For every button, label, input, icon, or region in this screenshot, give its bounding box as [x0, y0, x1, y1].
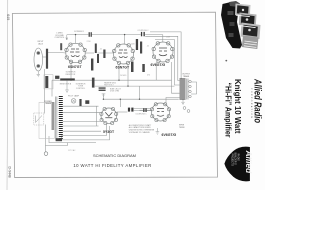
svg-text:6SN7GT: 6SN7GT	[68, 65, 82, 69]
svg-text:Knight 10 Watt: Knight 10 Watt	[233, 79, 243, 134]
wire: T1 secondary feed 2 to V4 plate	[63, 111, 100, 113]
wire: filtered B+ lead lower	[134, 110, 151, 112]
potentiometer R1 volume control (dark bar)	[46, 49, 48, 69]
power transformer T1	[44, 97, 62, 140]
svg-text:VOLTAGES TO CHASSIS: VOLTAGES TO CHASSIS	[129, 131, 151, 134]
ground left of V5 label	[156, 128, 160, 134]
photo caption dot	[225, 60, 227, 62]
wire: V2 grid lead	[98, 52, 114, 54]
wire: long bottom bus of driver section	[103, 98, 178, 100]
svg-text:.02: .02	[100, 49, 103, 51]
resistor R11 near pilot lamp	[79, 99, 81, 106]
resistor R5 at V1 left	[60, 43, 62, 50]
wire: V3 plate drop to transformer tap	[172, 62, 180, 93]
svg-text:AN: AN	[248, 158, 251, 162]
svg-text:SCREEN R: SCREEN R	[74, 31, 84, 33]
svg-text:.05: .05	[147, 46, 150, 48]
input jack J1	[34, 48, 43, 71]
wire: V4 cathode to filter cap	[117, 111, 128, 113]
svg-text:SCHEMATIC DIAGRAM: SCHEMATIC DIAGRAM	[93, 153, 136, 158]
svg-text:470K OHM: 470K OHM	[110, 91, 119, 93]
svg-text:TERM: TERM	[179, 127, 185, 129]
svg-text:PROJECTS: PROJECTS	[231, 154, 233, 167]
wire: V2 cathode drop left	[118, 64, 120, 80]
wire: transformer bottom drops	[60, 136, 62, 141]
wire: AC line drop to plug	[44, 139, 46, 152]
svg-text:6SN7GT: 6SN7GT	[116, 66, 130, 70]
T1 core	[56, 97, 57, 140]
wire: fuse lead	[49, 136, 52, 143]
pilot lamp PL1	[71, 99, 76, 104]
svg-text:117 V AC: 117 V AC	[68, 149, 76, 152]
svg-text:BUILDER S: BUILDER S	[234, 153, 236, 166]
T2 core	[187, 79, 188, 100]
resistor R13 between V1 and V2	[103, 50, 105, 59]
wire: T1 centre tap feed	[63, 130, 101, 132]
page fold line (left margin)	[6, 0, 9, 190]
wiper arrow of R1	[66, 35, 68, 40]
wire: coupling cap C8 input lead	[140, 109, 143, 111]
svg-text:649: 649	[6, 14, 10, 20]
wire: V1 cathode drop to AVC bus	[70, 63, 72, 81]
wire: bus y86	[95, 85, 175, 87]
svg-text:“Hi-Fi” Amplifier: “Hi-Fi” Amplifier	[223, 83, 233, 139]
tube V5 6V6GT/G	[150, 103, 170, 122]
junction: V1 cathode at bus	[70, 80, 71, 81]
wire: nested corner 2	[145, 36, 179, 80]
junction: V2 plate at B+ bus	[124, 34, 125, 35]
svg-text:TRANS: TRANS	[183, 75, 190, 78]
wire: T1 secondary feed 3 to V4 plate	[63, 120, 100, 122]
paper background	[0, 0, 265, 190]
ground below output transformer	[181, 100, 184, 105]
tube V4 5Y3GT rectifier	[100, 107, 118, 124]
resistor R12 bias (dark bar in outline box)	[44, 75, 53, 89]
wire: V2 plate riser	[124, 35, 126, 44]
wire: V5 plate riser to transformer bottom tap	[166, 98, 180, 104]
resistor R8 (dark bar)	[140, 42, 142, 54]
svg-text:CONTROL: CONTROL	[55, 37, 66, 39]
capacitor C8 coupling to V5 (dark)	[143, 108, 144, 112]
chassis photo (top right, rotated product shot)	[221, 1, 261, 49]
svg-text:470: 470	[147, 75, 150, 77]
svg-text:10 WATT HI FIDELITY AMPLIFIER: 10 WATT HI FIDELITY AMPLIFIER	[73, 163, 151, 168]
ground below C5	[102, 94, 106, 96]
wire: volume control wiper to V1 grid	[48, 52, 66, 55]
fuse F1 (dark blob on AC line)	[56, 138, 62, 141]
switch S1 on volume control (dashed box)	[34, 113, 44, 125]
Allied shield badge (bottom right, rotated; point faces left)	[224, 147, 254, 182]
T2 primary winding comb	[180, 79, 186, 99]
resistor R3 (dark bar)	[97, 54, 99, 63]
svg-text:6V6GT/G: 6V6GT/G	[151, 63, 166, 67]
resistor R4 cathode of V2 (dark bar)	[91, 59, 93, 71]
wire: V5 grid lead	[147, 109, 152, 111]
svg-text:6V6GT/G: 6V6GT/G	[162, 133, 177, 137]
junction: V2 cathode at bus	[118, 80, 119, 81]
wire: B+ bus segment 1	[67, 34, 89, 36]
output transformer T2	[180, 74, 192, 100]
tube V3 6V6GT/G	[152, 42, 174, 63]
wire: heater run 1	[61, 125, 106, 136]
wire: heater run 2	[61, 126, 109, 140]
T2 secondary terminals	[189, 80, 191, 82]
wire: V2 cathode drop right	[127, 64, 129, 86]
svg-text:CONTROL: CONTROL	[76, 88, 85, 90]
wire: V1 plate lead	[85, 52, 94, 54]
ground below input jack	[37, 71, 40, 77]
wire: input jack to volume control	[43, 56, 47, 58]
wire: nested corner 1 to output transformer top tap	[150, 32, 181, 80]
svg-text:D-9448: D-9448	[8, 167, 12, 178]
capacitor C6 (dark)	[85, 100, 89, 104]
capacitor C1 coupling (dark pair)	[89, 32, 90, 37]
resistor R14 below R4	[92, 78, 95, 88]
wire: V3 cathode drop	[155, 62, 157, 80]
ground from R6	[65, 81, 69, 93]
wire: T1 secondary feed 1	[63, 105, 99, 107]
wire: B+ bus segment 3	[145, 34, 163, 36]
resistor R2 (dark bar)	[95, 44, 97, 54]
wire: switch to AC	[44, 125, 46, 139]
resistor R9 (dark bar)	[131, 62, 134, 73]
speaker terminal circles	[183, 107, 186, 110]
wire: B+ bus segment 2	[92, 34, 141, 36]
svg-text:5Y3GT: 5Y3GT	[103, 130, 115, 134]
svg-text:CORPORATION: CORPORATION	[250, 88, 253, 119]
svg-text:20 MFD: 20 MFD	[120, 75, 127, 77]
wire: T1 secondary feed 4	[63, 125, 99, 127]
tube V2 6SN7GT	[113, 44, 135, 65]
junction: V1 plate at B+ bus	[75, 34, 76, 35]
T1 primary winding comb	[52, 103, 55, 129]
capacitor C7 filter (dark)	[128, 108, 130, 112]
svg-text:Allied Radio: Allied Radio	[252, 78, 264, 123]
T1 secondary winding comb	[59, 97, 63, 139]
resistor R6 (dark horizontal bar)	[60, 78, 75, 80]
svg-text:COUPLING C: COUPLING C	[137, 30, 149, 32]
junction: bottom bus left end	[103, 99, 104, 100]
svg-text:COUPLING C: COUPLING C	[135, 114, 147, 116]
wire: rectifier plate riser	[119, 99, 121, 107]
wire: filtered B+ lead upper	[134, 107, 151, 109]
wire: volume pot to switch drop	[44, 69, 46, 114]
junction: splitter drop at bottom bus	[139, 99, 140, 100]
resistor R10 (dark bar)	[142, 64, 145, 72]
svg-text:RESISTOR: RESISTOR	[66, 74, 76, 76]
resistor R7 (dark bar)	[136, 39, 138, 50]
wire: V1 plate riser	[75, 35, 77, 44]
capacitor C5 tone (dark pair horizontal)	[99, 87, 106, 88]
wire: bottom bus left drop	[102, 94, 104, 100]
svg-text:PILOT LAMP: PILOT LAMP	[68, 95, 80, 98]
svg-text:RADIO: RADIO	[237, 154, 240, 161]
wire: AC line return	[45, 143, 67, 146]
wire: AC primary run	[52, 142, 96, 144]
wire: feed vertical join	[96, 106, 98, 126]
chassis outline box around power section	[39, 102, 54, 138]
svg-text:RESISTOR B: RESISTOR B	[60, 83, 72, 85]
capacitor C3 C4 coupling pair (dark)	[141, 32, 142, 36]
svg-text:HIGH VOLT: HIGH VOLT	[104, 85, 114, 87]
svg-text:JACK: JACK	[38, 42, 44, 45]
wire: nested corner 3	[155, 40, 180, 85]
schematic border frame	[12, 12, 217, 177]
capacitor C2 electrolytic (dark blob)	[55, 76, 59, 79]
wire: output transformer secondary to speaker line	[191, 82, 197, 94]
wire: left drop to transformer	[51, 80, 53, 96]
junction: rectifier riser at bottom bus	[120, 99, 121, 100]
svg-text:Allied: Allied	[244, 150, 254, 175]
wire: long bus y80	[52, 79, 172, 81]
junction: splitter at feedback bus	[127, 85, 128, 86]
wire: splitter drop to bottom bus	[139, 86, 141, 99]
tube V1 6SN7GT	[65, 43, 87, 64]
AC plug P1	[44, 152, 48, 156]
wire: V3 grid riser	[162, 35, 164, 42]
